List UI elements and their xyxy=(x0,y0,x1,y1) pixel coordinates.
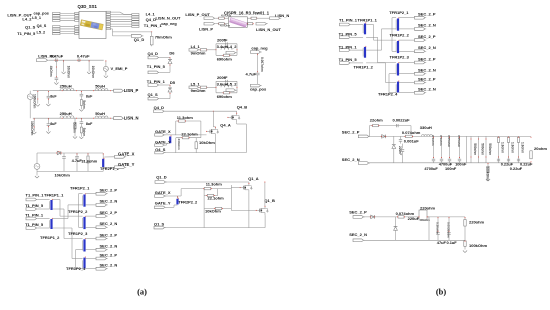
svg-text:LISN_N: LISN_N xyxy=(124,115,139,120)
svg-text:45.6Ohm: 45.6Ohm xyxy=(220,25,230,28)
svg-text:TFR1P1_1: TFR1P1_1 xyxy=(358,17,378,22)
svg-text:3.6uH: 3.6uH xyxy=(217,82,228,87)
svg-text:L5_2: L5_2 xyxy=(37,31,46,35)
svg-text:SEC_2_N: SEC_2_N xyxy=(418,45,436,50)
svg-text:SEC_2_N: SEC_2_N xyxy=(100,263,118,268)
svg-text:500ohm: 500ohm xyxy=(473,143,477,155)
svg-text:100kOhm: 100kOhm xyxy=(30,121,34,136)
svg-text:Q4_S: Q4_S xyxy=(37,24,47,28)
svg-text:11.3ohm: 11.3ohm xyxy=(177,115,193,120)
svg-text:0.001uF: 0.001uF xyxy=(404,139,419,144)
svg-text:GATE_Y: GATE_Y xyxy=(118,162,135,167)
svg-text:SEC_2_N: SEC_2_N xyxy=(349,232,367,237)
svg-text:70mOhm: 70mOhm xyxy=(155,35,173,40)
svg-text:TFR1P1_1: TFR1P1_1 xyxy=(44,192,64,197)
svg-text:22ohm: 22ohm xyxy=(370,117,383,122)
svg-text:Q4_A: Q4_A xyxy=(220,123,231,128)
svg-text:Q4_D: Q4_D xyxy=(154,105,165,110)
svg-text:T1_PIN_1: T1_PIN_1 xyxy=(147,79,166,84)
svg-text:cap_neg: cap_neg xyxy=(251,46,268,51)
svg-text:0.007ohm: 0.007ohm xyxy=(260,57,264,72)
svg-text:220ohm: 220ohm xyxy=(469,220,485,225)
svg-text:TFR1P2_2: TFR1P2_2 xyxy=(68,209,88,214)
svg-text:200fF: 200fF xyxy=(217,75,228,80)
svg-text:LISN_P: LISN_P xyxy=(124,88,139,93)
svg-text:250uH: 250uH xyxy=(60,111,72,116)
svg-text:330uH: 330uH xyxy=(420,125,432,130)
svg-text:50uH: 50uH xyxy=(95,111,105,116)
svg-text:D6: D6 xyxy=(169,50,175,55)
svg-text:50uH: 50uH xyxy=(95,84,105,89)
svg-text:SEC_2_N: SEC_2_N xyxy=(100,221,118,226)
svg-text:9mOhm: 9mOhm xyxy=(191,88,206,93)
svg-text:(a): (a) xyxy=(137,288,147,297)
svg-text:0.074ohm: 0.074ohm xyxy=(402,130,421,135)
svg-text:10kOhm: 10kOhm xyxy=(199,140,215,145)
svg-text:TFR1P2_4: TFR1P2_4 xyxy=(378,91,398,96)
svg-text:cap_pos: cap_pos xyxy=(250,86,267,91)
svg-text:TFR1P2_4: TFR1P2_4 xyxy=(66,266,86,271)
svg-text:31.6ohm: 31.6ohm xyxy=(81,158,97,163)
svg-text:240ohm: 240ohm xyxy=(177,139,181,151)
svg-text:0.1ohm: 0.1ohm xyxy=(431,135,435,146)
svg-text:10kOhm: 10kOhm xyxy=(91,66,95,79)
svg-text:SEC_2_N: SEC_2_N xyxy=(100,199,118,204)
svg-text:SEC_2_N: SEC_2_N xyxy=(100,244,118,249)
svg-text:20ohm: 20ohm xyxy=(534,146,547,151)
svg-text:L4_1: L4_1 xyxy=(146,11,156,16)
svg-text:5ohm: 5ohm xyxy=(82,128,86,137)
svg-text:L4_1: L4_1 xyxy=(191,44,201,49)
svg-text:500ohm: 500ohm xyxy=(488,143,492,155)
svg-text:250uH: 250uH xyxy=(60,84,72,89)
svg-text:TFR2P2_2: TFR2P2_2 xyxy=(178,200,198,205)
svg-text:50ohm: 50ohm xyxy=(72,123,76,133)
svg-text:GATE_X: GATE_X xyxy=(155,190,171,195)
svg-text:LISN_P_OUT: LISN_P_OUT xyxy=(185,12,210,17)
svg-text:T1_PIN_1: T1_PIN_1 xyxy=(26,192,45,197)
svg-text:GATE_X: GATE_X xyxy=(118,151,135,156)
svg-text:LISN_P: LISN_P xyxy=(199,27,213,32)
svg-text:Q4_D: Q4_D xyxy=(148,51,159,56)
svg-text:3.4uH: 3.4uH xyxy=(217,44,228,49)
svg-text:100nF: 100nF xyxy=(445,166,457,171)
svg-text:SEC_2_P: SEC_2_P xyxy=(100,232,118,237)
svg-text:9mOhm: 9mOhm xyxy=(191,51,206,56)
svg-text:11.3ohm: 11.3ohm xyxy=(206,182,222,187)
svg-text:L4_2: L4_2 xyxy=(227,44,237,49)
svg-text:TFR1P2_1: TFR1P2_1 xyxy=(70,186,90,191)
svg-text:5ohm: 5ohm xyxy=(82,100,86,109)
svg-text:0.22uF: 0.22uF xyxy=(510,166,523,171)
svg-text:100kOhm: 100kOhm xyxy=(33,94,37,109)
svg-text:10kOhm: 10kOhm xyxy=(205,209,221,214)
svg-text:SEC_2_P: SEC_2_P xyxy=(418,56,436,61)
svg-text:cap_pos: cap_pos xyxy=(34,12,49,16)
svg-text:T1_PIN_1: T1_PIN_1 xyxy=(144,23,163,28)
svg-text:SEC_2_N: SEC_2_N xyxy=(418,23,436,28)
svg-text:8uF: 8uF xyxy=(50,122,57,126)
svg-text:TFR1P2_2: TFR1P2_2 xyxy=(390,32,410,37)
svg-text:1.8ohm: 1.8ohm xyxy=(500,142,504,153)
svg-text:0.0035ohm: 0.0035ohm xyxy=(447,222,451,238)
svg-text:100kOhm: 100kOhm xyxy=(486,167,490,182)
svg-text:Q4_B: Q4_B xyxy=(237,105,248,110)
svg-text:SEC_2_P: SEC_2_P xyxy=(349,210,367,215)
svg-text:8uF: 8uF xyxy=(86,122,93,126)
svg-text:GATE_Y: GATE_Y xyxy=(155,200,171,205)
svg-text:47uF: 47uF xyxy=(437,240,447,245)
svg-text:100kOhm: 100kOhm xyxy=(469,243,487,248)
svg-text:TFR1P1_2: TFR1P1_2 xyxy=(354,64,374,69)
svg-text:SEC_2_P: SEC_2_P xyxy=(100,188,118,193)
svg-text:45.6Ohm: 45.6Ohm xyxy=(221,14,231,17)
svg-text:1.8ohm: 1.8ohm xyxy=(510,142,514,153)
svg-text:Q1_S: Q1_S xyxy=(154,221,165,226)
svg-text:4kOhm: 4kOhm xyxy=(49,66,53,77)
svg-text:SEC_2_P: SEC_2_P xyxy=(100,210,118,215)
svg-text:10kOhm: 10kOhm xyxy=(66,66,70,79)
svg-text:SEC_2_P: SEC_2_P xyxy=(100,252,118,257)
svg-text:L5_1: L5_1 xyxy=(191,81,201,86)
svg-text:Q4_D: Q4_D xyxy=(146,17,157,22)
svg-text:TFR1P2_3: TFR1P2_3 xyxy=(390,54,410,59)
svg-text:LISN_N_OUT: LISN_N_OUT xyxy=(256,27,281,32)
svg-text:L5_1: L5_1 xyxy=(32,16,41,20)
svg-text:SEC_2_N: SEC_2_N xyxy=(342,157,360,162)
svg-text:0.36ohm: 0.36ohm xyxy=(436,222,440,235)
svg-text:22.1ohm: 22.1ohm xyxy=(181,131,198,136)
svg-text:Q1_B: Q1_B xyxy=(264,198,275,203)
svg-text:0.0022uF: 0.0022uF xyxy=(393,117,411,122)
svg-text:0.47uF: 0.47uF xyxy=(77,54,90,59)
svg-text:SEC_2_P: SEC_2_P xyxy=(418,12,436,17)
svg-text:T1_PIN_5: T1_PIN_5 xyxy=(17,31,36,36)
svg-text:500ohm: 500ohm xyxy=(480,143,484,155)
svg-text:SEC_2_P: SEC_2_P xyxy=(342,129,360,134)
svg-text:SEC_2_N: SEC_2_N xyxy=(418,87,436,92)
svg-text:SEC_2_P: SEC_2_P xyxy=(418,34,436,39)
svg-text:8uF: 8uF xyxy=(50,95,57,99)
svg-text:22.1ohm: 22.1ohm xyxy=(208,196,225,201)
svg-text:0.47uF: 0.47uF xyxy=(51,54,64,59)
svg-text:220ohm: 220ohm xyxy=(420,205,436,210)
svg-text:200fF: 200fF xyxy=(217,38,228,43)
svg-text:SEC_2_N: SEC_2_N xyxy=(418,68,436,73)
svg-text:690ohm: 690ohm xyxy=(217,57,233,62)
svg-text:TFR1P2_1: TFR1P2_1 xyxy=(389,10,409,15)
svg-text:V_EMI_P: V_EMI_P xyxy=(111,66,128,71)
svg-text:690ohm: 690ohm xyxy=(217,94,233,99)
svg-text:10kOhm: 10kOhm xyxy=(55,172,71,177)
svg-text:LISN_N_OUT: LISN_N_OUT xyxy=(156,15,181,20)
svg-text:D5: D5 xyxy=(170,80,176,85)
svg-text:Q1_S: Q1_S xyxy=(148,92,159,97)
svg-text:0.1ohm: 0.1ohm xyxy=(439,135,443,146)
svg-text:T1_PIN_5: T1_PIN_5 xyxy=(147,64,166,69)
svg-text:100nF: 100nF xyxy=(455,162,467,167)
svg-text:220uF: 220uF xyxy=(408,216,420,221)
svg-text:TFR1P2_3: TFR1P2_3 xyxy=(68,231,88,236)
svg-text:220nF: 220nF xyxy=(398,146,402,155)
svg-text:Q1_D: Q1_D xyxy=(156,175,167,180)
svg-text:Q3D_SS1: Q3D_SS1 xyxy=(78,4,98,9)
svg-text:(b): (b) xyxy=(436,288,446,297)
svg-text:Q4_S: Q4_S xyxy=(155,147,166,152)
svg-text:L5_2: L5_2 xyxy=(227,82,237,87)
svg-text:8uF: 8uF xyxy=(86,95,93,99)
svg-text:Q1_D: Q1_D xyxy=(134,37,145,42)
svg-text:L4_2: L4_2 xyxy=(22,17,32,22)
svg-text:4700uF: 4700uF xyxy=(424,166,438,171)
svg-text:Q1_S: Q1_S xyxy=(25,24,36,29)
svg-text:Q1_A: Q1_A xyxy=(248,176,259,181)
svg-text:cap_neg: cap_neg xyxy=(161,22,177,26)
svg-text:1.8ohm: 1.8ohm xyxy=(520,142,524,153)
svg-text:SEC_2_P: SEC_2_P xyxy=(418,76,436,81)
svg-text:0.1uF: 0.1uF xyxy=(447,240,458,245)
svg-text:T1_PIN_1: T1_PIN_1 xyxy=(339,17,358,22)
svg-text:TFR1P1_2: TFR1P1_2 xyxy=(40,235,60,240)
svg-text:4.7uF: 4.7uF xyxy=(246,72,257,77)
